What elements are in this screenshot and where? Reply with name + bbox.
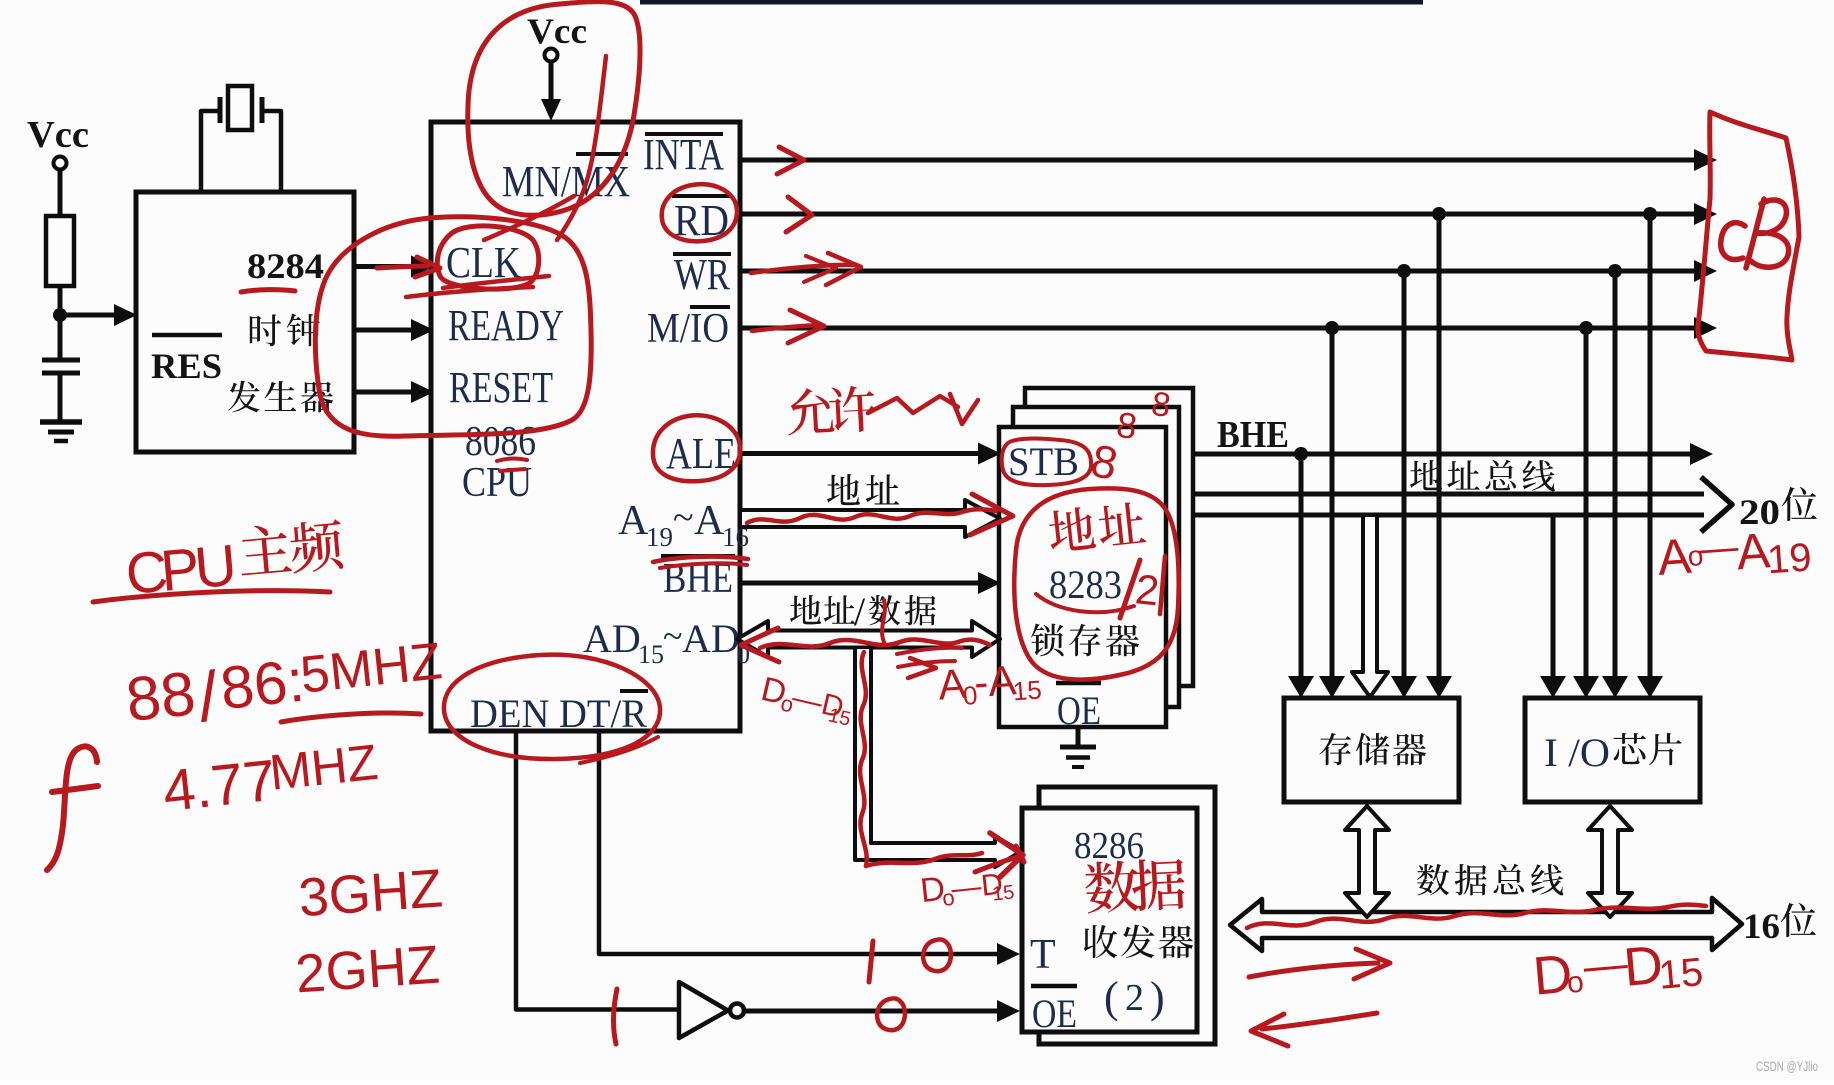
svg-text:T: T (1030, 932, 1056, 978)
wire M/IO line (742, 326, 1696, 331)
svg-text:/: / (854, 589, 866, 634)
red annotation: shuju (data) scribble on 8286 (1084, 857, 1186, 914)
red annotation: CB bracket (1698, 112, 1799, 360)
red annotation: rounded box around STB (1002, 439, 1091, 486)
svg-text:RES: RES (151, 346, 222, 386)
svg-text:): ) (1150, 973, 1165, 1022)
wire READY (354, 328, 412, 333)
svg-text:88: 88 (123, 659, 199, 735)
svg-text:19: 19 (1766, 535, 1813, 582)
wire ALE to STB (742, 451, 980, 456)
pin RES with overbar (152, 333, 222, 338)
label dizhi/shuju (address/data) (790, 595, 855, 624)
wire DEN to inverter (516, 731, 677, 1010)
red annotation: left arrow under data bus (1262, 1013, 1377, 1029)
junction dot WR/IO (1608, 264, 1622, 278)
svg-text:86:: 86: (217, 647, 307, 722)
address bus upper line (1192, 492, 1704, 497)
red annotation: chevron on RD line (786, 197, 812, 232)
red annotation: underline 5MHZ (281, 713, 421, 722)
red annotation: strokes under CLK (443, 276, 549, 288)
wire drop WR to IO (1613, 271, 1618, 676)
svg-text:4.77: 4.77 (160, 748, 279, 824)
svg-text:15: 15 (1012, 674, 1043, 706)
wire drop M/IO to memory (1330, 328, 1335, 676)
svg-text:ALE: ALE (666, 429, 736, 478)
CPU U2 8086 box (431, 122, 740, 731)
red annotation: right arrow under data bus (1249, 963, 1378, 977)
wire BHE latch to CB (1193, 452, 1692, 457)
red annotation: big circle around latch labels (1014, 488, 1178, 679)
junction dot RD/IO (1643, 207, 1657, 221)
wire drop WR to memory (1402, 271, 1407, 676)
svg-text:OE: OE (1057, 688, 1101, 733)
svg-text:8286: 8286 (1074, 825, 1144, 867)
wire drop M/IO to IO (1584, 328, 1589, 676)
junction dot MIO/IO (1579, 321, 1593, 335)
junction dot RD/memory (1432, 207, 1446, 221)
label OE with overbar (latch) (1056, 681, 1101, 686)
red annotation: stroke over BHE bar (653, 557, 748, 562)
memory box (1284, 698, 1459, 802)
red annotation: dizhi scribble in latch (1047, 500, 1147, 552)
red annotation: squiggle along data bus (1247, 905, 1706, 928)
data bus 16-bit hollow double arrow (1230, 898, 1742, 951)
wire node to 8284 RES input (60, 313, 114, 318)
red annotation: 1 near inverter input (613, 989, 617, 1044)
clock generator U1 8284 box (136, 192, 354, 452)
red annotation: double underline 8086 (497, 459, 527, 461)
red annotation: arrow on M/IO line (752, 325, 820, 331)
red annotation: CB text (1721, 223, 1745, 260)
bus AD branch to 8286 (L-shaped hollow arrow) (855, 649, 1021, 867)
label dizhizongxian (address bus) (1410, 460, 1555, 492)
wire Vcc to resistor (58, 170, 63, 216)
red annotation: AD bus left arrow (741, 628, 779, 662)
junction dot BHE drop (1294, 447, 1308, 461)
label shoufaqi (transceiver) (1084, 925, 1193, 959)
red annotation: blob around top Vcc (468, 2, 640, 216)
wire WR line (742, 269, 1696, 274)
label shizhong (clock) (250, 314, 320, 347)
resistor R1 (46, 216, 74, 286)
red annotation: big arrowhead into 8286 (990, 833, 1023, 877)
label cunchuqi (memory) (1319, 733, 1426, 766)
label fashengqi (generator) (228, 381, 333, 413)
svg-text:M/IO: M/IO (647, 306, 729, 352)
red annotation: arrows to A0-A15 (897, 648, 962, 654)
red annotation: arrow on WR line (751, 265, 857, 273)
red annotation: underline CPU zhupin (93, 591, 330, 602)
vertical double arrow memory to data bus (1345, 806, 1389, 917)
latch U3 front box 8283 (999, 427, 1166, 727)
svg-text:RESET: RESET (449, 363, 553, 412)
svg-text:—: — (1697, 524, 1740, 571)
svg-text:15: 15 (1657, 950, 1705, 998)
inverter gate (679, 982, 728, 1038)
junction dot MIO/memory (1325, 321, 1339, 335)
red annotation: underline below 8284 (241, 290, 295, 292)
crystal Y1 (201, 111, 219, 192)
I/O chip box (1525, 698, 1700, 802)
red annotation: squiggle along AD bus (760, 639, 990, 648)
svg-text:3GHZ: 3GHZ (297, 858, 445, 928)
svg-text:o: o (1566, 966, 1586, 1000)
transceiver U4 front box 8286 (1022, 808, 1197, 1032)
svg-text:2GHZ: 2GHZ (294, 935, 442, 1005)
wire drop RD to memory (1437, 214, 1442, 676)
red annotation: squiggle down AD branch (860, 652, 867, 866)
svg-text:MHZ: MHZ (267, 734, 381, 801)
capacitor C1 (42, 358, 80, 363)
red annotation: /2| after 8283 (1120, 560, 1140, 618)
label dizhi (address) (827, 474, 899, 505)
bus AD15-AD0 bidirectional hollow arrow (737, 621, 1000, 657)
red annotation: 1 before T input (869, 941, 873, 982)
svg-text:CSDN @YJlio: CSDN @YJlio (1756, 1059, 1818, 1074)
wire BHE to latch (742, 581, 980, 586)
hollow address drop to memory (1352, 517, 1388, 697)
red annotation: f (47, 746, 97, 870)
svg-text:8284: 8284 (247, 246, 324, 286)
svg-text:15: 15 (991, 881, 1015, 905)
wire DT/R to T input (599, 731, 998, 954)
red annotation: chevron on INTA line (777, 147, 804, 174)
junction dot WR/memory (1397, 264, 1411, 278)
svg-text:16: 16 (1743, 906, 1780, 946)
wire RD line (742, 212, 1696, 217)
svg-text:-A: -A (973, 656, 1018, 706)
svg-text:DEN DT/R: DEN DT/R (470, 691, 647, 736)
wire drop BHE to memory (1299, 454, 1304, 676)
svg-text:OE: OE (1032, 991, 1077, 1036)
wire inverter to OE input (744, 1009, 998, 1014)
ground (left) (40, 419, 82, 425)
ground (latch OE) (1076, 727, 1081, 746)
transceiver U4 back box (1039, 787, 1215, 1044)
wire drop address to IO (1551, 515, 1556, 676)
red annotation: yunxu (allow) handwritten (786, 385, 877, 436)
address bus lower line (1192, 513, 1704, 518)
svg-text:WR: WR (674, 250, 731, 299)
node RES junction (53, 308, 67, 322)
wire capacitor to ground (58, 373, 63, 421)
wire resistor to node (58, 286, 63, 360)
svg-text:CPU: CPU (462, 460, 532, 506)
latch U3 middle box (1013, 407, 1179, 707)
red annotation: squiggle along address bus + arrowhead (747, 509, 996, 523)
red annotation: arrow into CLK (377, 266, 428, 268)
red annotation: squiggle arrow after yunxu (868, 396, 958, 413)
svg-text:BHE: BHE (1217, 414, 1289, 456)
red annotation: slash stroke from address/data label (882, 600, 885, 642)
bus A19-A16 hollow arrow (742, 500, 1000, 537)
red annotation: tail strokes through MN/MX (557, 56, 606, 240)
label shujuzongxian (data bus) (1417, 864, 1563, 896)
svg-text:I /O: I /O (1544, 730, 1610, 775)
svg-text:2: 2 (1125, 977, 1144, 1019)
red annotation: big loop around CLK/READY/RESET (315, 217, 591, 437)
wire drop RD to IO (1648, 214, 1653, 676)
wire INTA line (742, 158, 1696, 163)
label suocunqi (latch) (1031, 624, 1139, 657)
top title bar remnant (640, 0, 1423, 5)
red annotation: O on T line (923, 939, 951, 971)
wire RESET (354, 390, 412, 395)
address bus open arrowhead 20-bit (1701, 477, 1732, 532)
red annotation: O on OE line (877, 998, 905, 1030)
svg-text:Vcc: Vcc (527, 11, 587, 51)
svg-text:STB: STB (1008, 439, 1079, 484)
wire CLK (354, 264, 412, 269)
red annotation: ellipse around DEN DT/R (444, 655, 660, 759)
svg-text:INTA: INTA (643, 130, 724, 179)
svg-text:READY: READY (448, 301, 564, 350)
red annotation: inner circle around CLK (437, 226, 538, 289)
svg-text:2: 2 (1133, 565, 1161, 614)
red annotation: circle around ALE (653, 415, 740, 481)
red annotation: circle around RD (662, 184, 737, 241)
latch U3 back box (1025, 388, 1193, 686)
svg-text:8283: 8283 (1049, 562, 1122, 607)
pin label OE with overbar (8286) (1031, 984, 1077, 989)
svg-text:(: ( (1104, 973, 1119, 1022)
svg-text:Vcc: Vcc (27, 114, 89, 156)
vertical double arrow IO to data bus (1588, 806, 1632, 917)
